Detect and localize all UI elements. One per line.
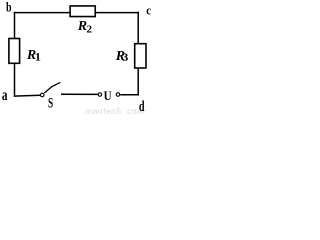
svg-text:S: S	[48, 94, 53, 111]
label R1	[26, 48, 41, 63]
svg-text:c: c	[146, 2, 151, 17]
label R2	[77, 19, 93, 35]
switch S blade	[44, 82, 60, 93]
svg-text:a: a	[2, 86, 8, 103]
resistor R3	[135, 44, 146, 68]
svg-text:d: d	[139, 98, 145, 114]
svg-text:R: R	[77, 19, 87, 34]
label R3	[115, 49, 129, 64]
wire right lower segment (R3 to d)	[137, 68, 139, 96]
svg-text:1: 1	[35, 50, 41, 64]
svg-text:U: U	[104, 90, 113, 104]
svg-text:b: b	[6, 0, 12, 15]
wire middle bottom segment (switch S to U terminal)	[61, 93, 98, 95]
resistor R1	[9, 39, 20, 64]
source terminal circle right	[116, 93, 120, 97]
wire bottom-left segment (a to switch S)	[14, 94, 41, 97]
wire top-left segment (b to R2)	[14, 12, 70, 14]
wire top-right segment (R2 to c)	[95, 12, 139, 14]
wire left upper segment (b to R1)	[14, 12, 16, 39]
svg-text:2: 2	[87, 24, 93, 36]
switch S pivot circle	[40, 93, 44, 97]
wire right upper segment (c to R3)	[137, 12, 139, 44]
svg-text:manfen5. com: manfen5. com	[85, 106, 144, 115]
wire left lower segment (R1 to a)	[14, 63, 16, 96]
svg-text:3: 3	[122, 50, 128, 64]
resistor R2	[70, 6, 95, 17]
wire bottom-right segment (U terminal to d)	[120, 94, 139, 96]
source terminal circle left	[98, 93, 102, 97]
